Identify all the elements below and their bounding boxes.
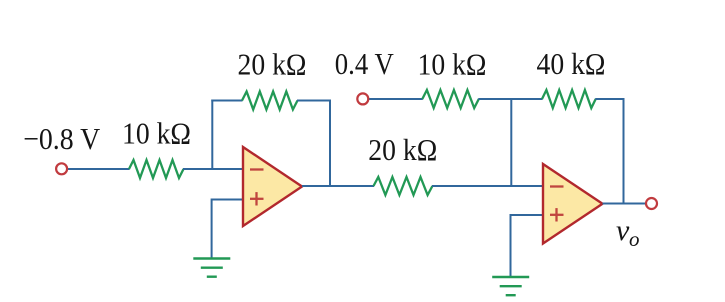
wire source 2 to R4 — [368, 98, 423, 100]
terminal input source 0.4V — [357, 93, 368, 104]
svg-text:20 kΩ: 20 kΩ — [368, 133, 437, 167]
wire op-amp 2 plus input stub — [511, 214, 544, 216]
svg-text:20 kΩ: 20 kΩ — [238, 48, 307, 82]
wire op-amp 2 plus to ground vertical — [510, 214, 512, 277]
wire R3 to op-amp 2 inverting input — [432, 185, 543, 187]
wire source 1 to R1 — [67, 168, 130, 170]
svg-text:o: o — [629, 227, 640, 251]
wire op-amp 2 output to terminal — [603, 203, 647, 205]
wire op-amp 1 plus input stub — [212, 199, 243, 201]
wire op-amp 1 output to R3 — [302, 185, 374, 187]
op-amp U2 — [543, 164, 603, 244]
wire feedback-1 top left — [211, 100, 242, 102]
wire feedback-1 top right — [297, 100, 330, 102]
wire op-amp 1 plus to ground vertical — [211, 199, 213, 259]
svg-text:0.4 V: 0.4 V — [335, 47, 394, 81]
ground G2 (op-amp 2 non-inverting) — [492, 277, 529, 295]
svg-text:10 kΩ: 10 kΩ — [122, 116, 191, 150]
terminal input source -0.8V — [56, 163, 67, 174]
wire R4 to R5 (node B) — [478, 98, 542, 100]
resistor R4 10k top — [422, 90, 479, 108]
wire feedback-1 left vertical (node A up) — [211, 100, 213, 170]
resistor R5 40k feedback op-amp 2 — [542, 90, 596, 108]
svg-text:40 kΩ: 40 kΩ — [537, 47, 606, 81]
op-amp U1 minus sign — [250, 168, 264, 170]
op-amp U1 plus sign — [250, 192, 264, 205]
resistor R2 20k feedback op-amp 1 — [242, 92, 298, 110]
svg-text:−0.8 V: −0.8 V — [23, 122, 100, 156]
wire node B vertical (top run down to op-amp 2 minus) — [510, 99, 512, 186]
op-amp U1 — [243, 147, 302, 226]
ground G1 (op-amp 1 non-inverting) — [193, 259, 230, 277]
op-amp U2 minus sign — [550, 185, 564, 187]
resistor R3 20k middle — [374, 177, 433, 195]
wire R1 to op-amp 1 inverting input — [183, 168, 243, 170]
resistor R1 10k input — [129, 160, 184, 178]
op-amp U2 plus sign — [550, 208, 564, 221]
wire feedback-2 right vertical down to output — [623, 99, 625, 204]
svg-text:v: v — [616, 214, 630, 247]
svg-text:10 kΩ: 10 kΩ — [418, 47, 487, 81]
wire feedback-1 right vertical down to output — [329, 100, 331, 187]
wire R5 to feedback-2 corner — [595, 98, 624, 100]
terminal output vo — [646, 198, 657, 209]
